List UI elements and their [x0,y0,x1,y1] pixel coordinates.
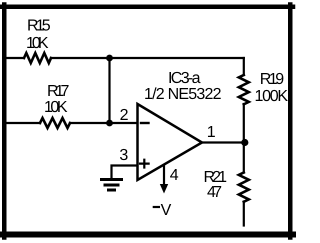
svg-text:47: 47 [207,184,222,201]
wire R19 to output node [243,104,245,173]
wire R21 down [243,202,245,226]
op-amp U1 IC3-a triangle [138,104,203,180]
wire junction down to inverting input [108,58,110,123]
resistor R17 [40,118,70,128]
svg-text:10K: 10K [26,35,49,52]
svg-text:10K: 10K [44,99,68,116]
svg-text:R17: R17 [47,83,69,100]
wire top-left to R15 [5,57,24,59]
wire left to R17 [5,122,40,124]
minus symbol pin 2 [141,122,149,124]
svg-text:4: 4 [170,167,179,184]
node junction top [106,55,113,62]
svg-text:R15: R15 [27,17,51,34]
resistor R19 [239,75,249,104]
wire ground to op-amp pin 3 [112,166,138,179]
resistor R15 [24,53,51,63]
ground [102,180,122,191]
svg-text:100K: 100K [255,88,289,105]
resistor R21 [239,173,249,202]
svg-text:1/2 NE5322: 1/2 NE5322 [144,86,222,103]
svg-text:2: 2 [120,107,129,124]
svg-text:1: 1 [207,124,216,141]
wire R15 to right rail [51,57,244,59]
right rail wire upper [243,58,245,75]
svg-text:IC3-a: IC3-a [168,70,201,87]
plus symbol pin 3 [140,160,149,168]
svg-text:R19: R19 [260,71,284,88]
negative supply arrow pin 4 [163,166,165,186]
net -V minus dash [154,206,159,208]
output wire pin 1 [202,141,244,143]
svg-text:V: V [161,202,172,219]
svg-text:3: 3 [119,147,128,164]
node junction inverting input [106,120,113,127]
wire R17 to op-amp pin 2 [70,122,137,124]
node junction output [241,139,248,146]
border frame [2,5,293,10]
